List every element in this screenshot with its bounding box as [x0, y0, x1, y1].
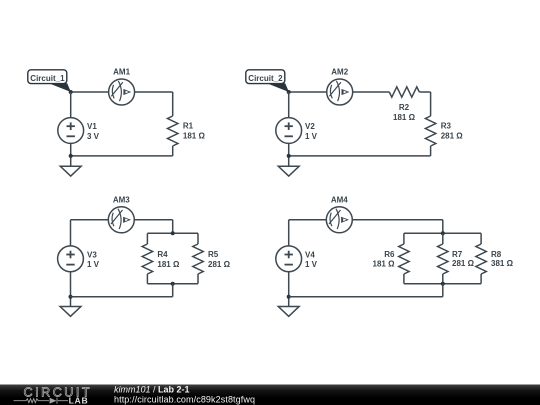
wire R1 to bottom — [172, 146, 174, 156]
wire corner down to V4 — [288, 220, 290, 246]
footer background bar — [0, 385, 540, 405]
label R1 value — [183, 122, 206, 141]
label R4 value — [157, 250, 180, 269]
wire bottom circuit 4 — [289, 296, 443, 298]
svg-text:R1: R1 — [183, 122, 194, 131]
label R5 value — [208, 250, 231, 269]
wire V1 to ground — [70, 143, 72, 166]
label V3 value — [87, 250, 100, 269]
svg-text:AM2: AM2 — [331, 68, 348, 77]
svg-text:R6: R6 — [384, 250, 395, 259]
ammeter AM2 — [327, 79, 353, 105]
svg-text:1 V: 1 V — [305, 132, 318, 141]
wire V2 to ground — [288, 143, 290, 166]
wire AM4 left to corner — [289, 219, 327, 221]
wire bottom rail down — [172, 284, 174, 297]
wire corner down to R3 — [430, 92, 432, 116]
resistor R2 — [389, 87, 419, 97]
svg-text:3 V: 3 V — [87, 132, 100, 141]
svg-text:381 Ω: 381 Ω — [491, 259, 514, 268]
svg-text:1 V: 1 V — [87, 260, 100, 269]
wire top rail to R4 — [146, 233, 148, 244]
wire bottom rail circuit 4 — [404, 283, 481, 285]
wire top rail to R6 — [403, 233, 405, 244]
node dot bottom rail circuit 3 — [171, 282, 175, 286]
wire node to AM1 — [71, 91, 109, 93]
wire R8 to bottom rail — [480, 274, 482, 284]
resistor R7 top lead — [442, 233, 444, 244]
resistor R4 — [142, 244, 152, 274]
ground circuit 2 — [278, 166, 299, 176]
resistor R8 — [476, 244, 486, 274]
wire corner down to parallel top rail — [442, 220, 444, 234]
wire corner down to V3 — [70, 220, 72, 246]
wire R7 to bottom rail — [442, 274, 444, 284]
ground circuit 3 — [60, 307, 81, 317]
pointer from label Circuit_2 to node — [267, 83, 289, 92]
wire bottom rail down — [442, 284, 444, 297]
node junction dot circuit 2 — [287, 90, 291, 94]
svg-text:AM1: AM1 — [113, 68, 130, 77]
wire top rail to R5 — [197, 233, 199, 244]
svg-text:http://circuitlab.com/c89k2st8: http://circuitlab.com/c89k2st8tgfwq — [114, 394, 255, 404]
wire V3 to ground — [70, 272, 72, 307]
wire AM3 left to corner — [71, 219, 109, 221]
svg-text:181 Ω: 181 Ω — [157, 260, 180, 269]
svg-text:kimm101 / Lab 2-1: kimm101 / Lab 2-1 — [114, 385, 190, 395]
ground circuit 4 — [278, 307, 299, 317]
voltage source V2 — [276, 118, 302, 144]
pointer from label Circuit_1 to node — [49, 83, 71, 92]
label V4 value — [305, 250, 318, 269]
wire bottom rail circuit 3 — [147, 283, 198, 285]
voltage source V1 — [58, 118, 84, 144]
wire AM1 to corner — [135, 91, 173, 93]
wire node down to V2 — [288, 92, 290, 118]
ammeter AM1 — [109, 79, 135, 105]
ground node dot circuit 2 — [287, 154, 291, 158]
ground node dot circuit 1 — [69, 154, 73, 158]
svg-text:LAB: LAB — [69, 395, 89, 405]
svg-text:181 Ω: 181 Ω — [373, 260, 396, 269]
svg-text:281 Ω: 281 Ω — [452, 259, 475, 268]
wire AM3 right to corner — [134, 219, 172, 221]
resistor R1 — [168, 116, 178, 146]
node dot bottom rail circuit 4 — [441, 282, 445, 286]
wire R3 to bottom — [430, 146, 432, 156]
wire corner down to R1 — [172, 92, 174, 116]
svg-text:181 Ω: 181 Ω — [183, 132, 206, 141]
svg-text:R5: R5 — [208, 250, 219, 259]
svg-text:V2: V2 — [305, 122, 315, 131]
voltage source V4 — [276, 246, 302, 272]
wire AM2 to R2 — [353, 91, 390, 93]
resistor R6 — [399, 244, 409, 274]
svg-text:1 V: 1 V — [305, 260, 318, 269]
node label Circuit_2 — [246, 70, 285, 84]
resistor R8 top lead — [480, 233, 482, 244]
svg-text:V1: V1 — [87, 122, 97, 131]
wire node to AM2 — [289, 91, 327, 93]
wire R6 to bottom rail — [403, 274, 405, 284]
resistor R7 — [438, 244, 448, 274]
svg-text:R7: R7 — [452, 250, 463, 259]
ammeter AM3 — [108, 207, 134, 233]
wire AM4 right to corner — [352, 219, 443, 221]
label R3 value — [441, 122, 464, 141]
label R7 value — [452, 250, 475, 268]
wire bottom circuit 2 — [289, 155, 431, 157]
svg-text:V4: V4 — [305, 250, 315, 259]
svg-text:R2: R2 — [399, 103, 410, 112]
ammeter AM4 — [326, 207, 352, 233]
label V1 value — [87, 122, 100, 141]
svg-text:281 Ω: 281 Ω — [441, 132, 464, 141]
wire R5 to bottom rail — [197, 274, 199, 284]
resistor R5 — [193, 244, 203, 274]
label R8 value — [491, 250, 514, 268]
voltage source V3 — [58, 246, 84, 272]
svg-text:281 Ω: 281 Ω — [208, 260, 231, 269]
label V2 value — [305, 122, 318, 141]
svg-text:181 Ω: 181 Ω — [393, 113, 416, 122]
wire bottom circuit 1 — [71, 155, 173, 157]
logo schematic squiggle — [14, 398, 69, 404]
svg-text:Circuit_1: Circuit_1 — [30, 74, 65, 83]
svg-text:AM3: AM3 — [113, 195, 130, 204]
svg-text:Circuit_2: Circuit_2 — [248, 74, 283, 83]
ground circuit 1 — [60, 166, 81, 176]
svg-text:AM4: AM4 — [331, 195, 348, 204]
wire V4 to ground — [288, 272, 290, 307]
node label Circuit_1 — [28, 70, 67, 84]
node junction dot circuit 1 — [69, 90, 73, 94]
wire top rail circuit 4 — [404, 232, 481, 234]
wire R4 to bottom rail — [146, 274, 148, 284]
node dot top rail circuit 4 — [441, 231, 445, 235]
ground node dot circuit 3 — [69, 295, 73, 299]
svg-text:R3: R3 — [441, 122, 452, 131]
resistor R3 — [425, 116, 435, 146]
label R2 value — [393, 103, 416, 122]
wire node down to V1 — [70, 92, 72, 118]
wire top rail circuit 3 — [147, 232, 198, 234]
logo diode triangle — [50, 398, 57, 404]
wire corner down to parallel top rail — [172, 220, 174, 234]
svg-text:R8: R8 — [491, 250, 502, 259]
label R6 value — [373, 250, 396, 269]
node dot top rail circuit 3 — [171, 231, 175, 235]
wire R2 to corner — [419, 91, 430, 93]
wire bottom circuit 3 — [71, 296, 173, 298]
ground node dot circuit 4 — [287, 295, 291, 299]
svg-text:V3: V3 — [87, 250, 97, 259]
svg-text:R4: R4 — [157, 250, 168, 259]
